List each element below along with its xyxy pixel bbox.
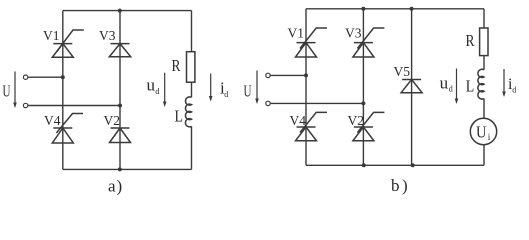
wire: bottom bus a	[63, 168, 192, 170]
wire: lower input lead b	[271, 102, 364, 104]
terminal: lower input b	[266, 101, 270, 105]
thyristor V1	[52, 30, 84, 57]
node: lower input junction b	[361, 101, 365, 105]
svg-text:d: d	[449, 85, 453, 94]
wire: left rail a	[62, 11, 64, 170]
svg-text:V1: V1	[43, 28, 60, 43]
wire: load rail below Ui b	[483, 145, 485, 166]
wire: load rail between R and L a	[191, 82, 193, 97]
svg-text:V3: V3	[99, 28, 116, 43]
node: upper input junction a	[61, 75, 65, 79]
node: second rail bottom b	[362, 163, 366, 167]
svg-text:V2: V2	[348, 113, 365, 128]
wire: second rail b	[362, 9, 364, 166]
svg-text:U: U	[476, 122, 487, 141]
svg-text:V4: V4	[44, 113, 61, 128]
wire: load rail top segment b	[483, 9, 485, 28]
wire: bottom bus b	[306, 164, 484, 166]
svg-text:b): b)	[391, 176, 410, 195]
svg-text:V5: V5	[394, 64, 411, 79]
resistor R (b)	[480, 28, 488, 56]
svg-text:U: U	[3, 82, 11, 101]
svg-text:u: u	[440, 73, 449, 92]
node: bottom of middle rail a	[118, 167, 122, 171]
wire: upper input lead b	[271, 74, 306, 76]
svg-text:a): a)	[108, 176, 123, 195]
wire: V5 rail b	[411, 9, 413, 166]
thyristor V1 (b)	[296, 28, 328, 57]
wire: lower input lead a	[28, 105, 120, 107]
terminal: upper input b	[266, 73, 270, 77]
svg-text:u: u	[147, 75, 156, 94]
svg-text:V1: V1	[288, 25, 305, 40]
svg-text:d: d	[155, 86, 160, 96]
arrow: i_d b	[502, 69, 506, 97]
wire: load rail between L and Ui b	[483, 99, 485, 119]
thyristor V4	[52, 114, 83, 144]
thyristor V4 (b)	[296, 112, 328, 140]
node: lower input junction a	[118, 104, 122, 108]
svg-text:R: R	[466, 31, 476, 50]
wire: middle rail a	[119, 11, 121, 170]
arrow: i_d a	[209, 74, 213, 102]
wire: top bus a	[63, 10, 192, 12]
svg-text:U: U	[244, 82, 252, 101]
svg-text:d: d	[512, 86, 516, 95]
svg-text:i: i	[488, 132, 491, 142]
thyristor V2	[110, 128, 131, 143]
svg-text:V3: V3	[345, 25, 362, 40]
arrow: U source a	[13, 72, 17, 109]
motor/source Ui	[470, 118, 496, 144]
diode V5	[401, 80, 422, 93]
wire: left rail b	[305, 9, 307, 166]
terminal: lower input a	[23, 103, 27, 107]
arrow: u_d a	[163, 73, 167, 107]
node: V5 rail top b	[410, 7, 414, 11]
thyristor V2 (b)	[353, 112, 385, 140]
thyristor V3	[109, 44, 130, 57]
svg-text:L: L	[466, 77, 475, 96]
wire: load rail top segment a	[191, 11, 193, 52]
wire: load rail bottom segment a	[191, 126, 193, 169]
arrow: U source b	[255, 71, 259, 105]
node: second rail top b	[361, 7, 365, 11]
svg-text:d: d	[224, 90, 228, 99]
svg-text:R: R	[172, 56, 182, 75]
thyristor V3 (b)	[353, 28, 385, 57]
svg-text:V2: V2	[104, 113, 121, 128]
wire: upper input lead a	[28, 76, 63, 78]
inductor L (a)	[185, 97, 191, 127]
node: top of middle rail a	[118, 9, 122, 13]
wire: load rail between R and L b	[483, 56, 485, 70]
node: upper input junction b	[304, 73, 308, 77]
svg-text:V4: V4	[290, 113, 307, 128]
inductor L (b)	[478, 69, 484, 99]
terminal: upper input a	[23, 75, 27, 79]
arrow: u_d b	[455, 69, 459, 105]
node: V5 rail bottom b	[411, 163, 415, 167]
wire: top bus b	[306, 8, 484, 10]
svg-text:L: L	[175, 107, 184, 126]
resistor R (a)	[187, 52, 195, 82]
